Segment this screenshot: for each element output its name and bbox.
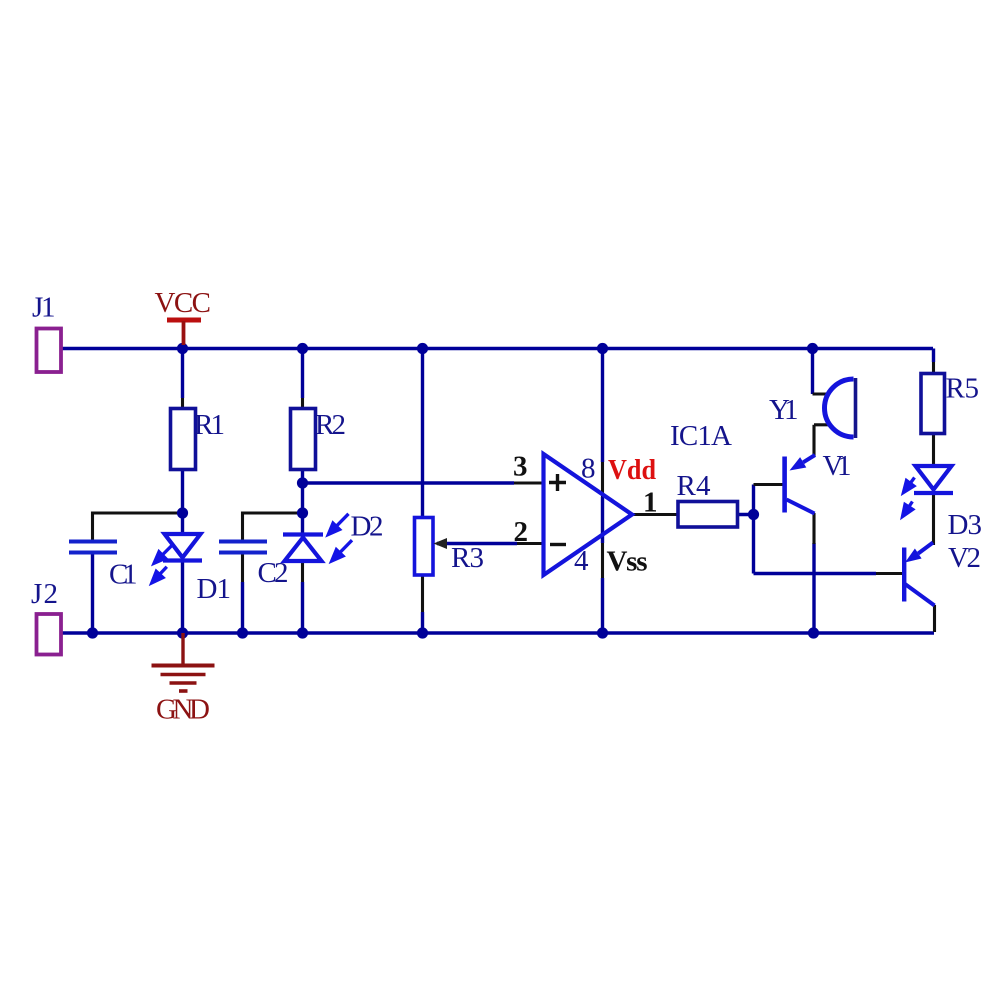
svg-text:Vdd: Vdd — [608, 454, 656, 486]
svg-text:D3: D3 — [948, 509, 983, 541]
svg-text:R3: R3 — [451, 542, 484, 574]
svg-text:R1: R1 — [194, 409, 225, 441]
svg-text:8: 8 — [581, 453, 596, 485]
svg-text:3: 3 — [513, 451, 528, 483]
svg-text:C1: C1 — [109, 559, 138, 591]
svg-text:C2: C2 — [258, 557, 289, 589]
svg-text:IC1A: IC1A — [670, 420, 732, 452]
svg-text:J2: J2 — [31, 578, 58, 610]
svg-text:VCC: VCC — [155, 287, 212, 319]
svg-text:4: 4 — [574, 545, 589, 577]
svg-text:R2: R2 — [315, 409, 346, 441]
svg-text:Vss: Vss — [607, 546, 648, 578]
svg-text:V1: V1 — [823, 450, 852, 482]
svg-text:Y1: Y1 — [769, 394, 799, 426]
svg-text:D2: D2 — [351, 511, 384, 543]
svg-text:R4: R4 — [677, 470, 712, 502]
svg-text:V2: V2 — [948, 542, 981, 574]
svg-text:R5: R5 — [946, 373, 980, 405]
svg-text:1: 1 — [643, 487, 658, 519]
svg-text:J1: J1 — [32, 292, 56, 324]
svg-text:D1: D1 — [197, 573, 232, 605]
svg-text:2: 2 — [514, 516, 529, 548]
svg-text:GND: GND — [156, 694, 210, 726]
